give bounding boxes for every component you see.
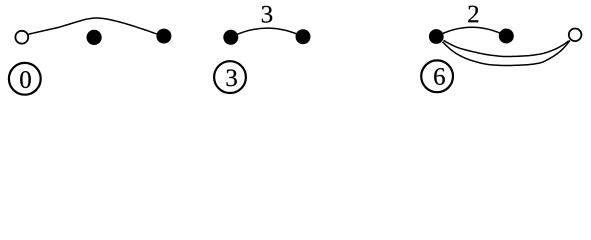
digit 3: [227, 69, 237, 86]
node 0 (open circle, group 1): [15, 31, 28, 44]
label circle 0: [9, 63, 41, 95]
label circle 6: [421, 60, 453, 92]
node 8 (open circle, group 3): [569, 29, 582, 42]
node 3 (filled, group 2): [223, 30, 238, 45]
digit 6: [434, 68, 445, 85]
wire arc from node 6 to node 7 (group 3 upper): [436, 27, 506, 36]
label circle 3: [214, 61, 246, 93]
node 4 (filled, group 2): [296, 29, 311, 44]
wire arc from node 3 to node 4 (group 2): [231, 28, 303, 37]
node 2 (filled, group 1): [156, 29, 171, 44]
wire arc from node 6 to node 8 (group 3 lower deep): [443, 41, 570, 66]
weight label 3 (group 2 arc): [262, 6, 272, 23]
wire arc from node 0 to node 2 (group 1): [24, 18, 158, 35]
node 7 (filled, group 3): [499, 29, 514, 44]
wire arc from node 6 to node 8 (group 3 lower shallow): [444, 40, 569, 56]
node 6 (filled, group 3): [429, 29, 444, 44]
digit 0: [20, 71, 31, 88]
weight label 2 (group 3 upper arc): [468, 6, 478, 23]
node 1 (filled, group 1): [87, 30, 102, 45]
